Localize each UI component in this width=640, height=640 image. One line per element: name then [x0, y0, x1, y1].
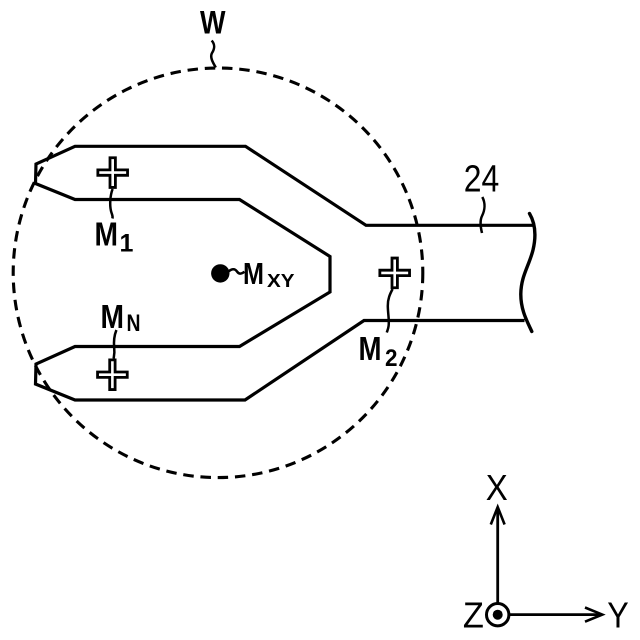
- svg-text:M: M: [243, 257, 264, 291]
- leader for label MXY: [229, 269, 245, 273]
- break (wavy) line at right end of arm 24: [521, 214, 535, 332]
- svg-text:X: X: [486, 467, 508, 508]
- alignment cross M1: [98, 158, 128, 188]
- svg-text:W: W: [200, 5, 226, 41]
- leader for label W: [211, 41, 216, 68]
- svg-text:M: M: [101, 299, 125, 336]
- Y axis arrowhead: [585, 608, 602, 622]
- leader for label MN: [114, 330, 117, 359]
- leader for label M1: [110, 189, 112, 219]
- svg-text:M: M: [359, 331, 382, 368]
- svg-text:24: 24: [464, 159, 500, 201]
- svg-text:Z: Z: [463, 595, 484, 636]
- svg-text:M: M: [95, 217, 119, 254]
- svg-text:XY: XY: [267, 270, 295, 291]
- alignment cross M2: [380, 258, 410, 288]
- svg-text:2: 2: [385, 345, 398, 372]
- Y axis shaft: [510, 613, 601, 616]
- fork end effector outline 24: [36, 146, 533, 400]
- svg-text:Y: Y: [607, 595, 629, 636]
- wafer W (dashed circle): [13, 68, 423, 478]
- alignment cross MN: [98, 360, 128, 390]
- svg-text:N: N: [127, 310, 141, 337]
- leader for label 24: [480, 197, 484, 233]
- center point dot MXY: [211, 264, 229, 282]
- leader for label M2: [387, 289, 393, 333]
- X axis arrowhead: [491, 507, 505, 525]
- svg-text:1: 1: [120, 230, 134, 258]
- Z axis symbol (circle with dot, out of page): [487, 604, 509, 626]
- coordinate axes: X axis shaft: [496, 509, 499, 603]
